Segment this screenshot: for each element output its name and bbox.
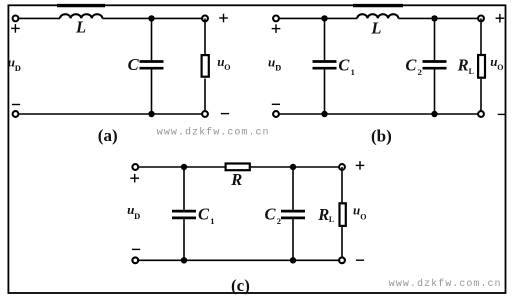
terminal output + (b) — [478, 16, 484, 22]
wire bottom (c) — [139, 259, 339, 261]
terminal output - (c) — [339, 257, 345, 263]
wire RL top lead (b) — [480, 18, 482, 54]
terminal output - (a) — [202, 111, 208, 117]
svg-text:D: D — [15, 63, 21, 73]
svg-text:www.dzkfw.com.cn: www.dzkfw.com.cn — [157, 126, 270, 138]
plus sign input (c) — [130, 174, 139, 183]
svg-text:C: C — [405, 56, 417, 75]
plus sign output (c) — [356, 161, 365, 170]
terminal input - (b) — [273, 111, 279, 117]
svg-text:L: L — [329, 215, 334, 224]
minus sign output (c) — [356, 259, 364, 261]
junction node C1 top (b) — [321, 15, 327, 21]
wire C2 top lead (c) — [292, 167, 294, 210]
svg-text:D: D — [275, 63, 281, 73]
svg-text:C: C — [265, 205, 277, 224]
minus sign output (b) — [498, 113, 506, 115]
plus sign input (a) — [11, 24, 20, 33]
junction node top (a) — [148, 15, 154, 21]
minus sign input (b) — [272, 103, 280, 105]
svg-text:(b): (b) — [371, 127, 392, 146]
svg-text:O: O — [360, 213, 366, 222]
svg-text:C: C — [128, 55, 140, 74]
wire C1 bottom lead (c) — [183, 219, 185, 260]
inductor L coil (a) — [60, 14, 102, 18]
svg-text:C: C — [198, 205, 210, 224]
terminal input + (c) — [132, 164, 138, 170]
svg-text:R: R — [317, 205, 329, 224]
svg-text:www.dzkfw.com.cn: www.dzkfw.com.cn — [389, 278, 502, 290]
svg-text:2: 2 — [277, 216, 281, 226]
svg-text:(c): (c) — [231, 276, 250, 295]
wire bottom (b) — [279, 113, 478, 115]
terminal input + (b) — [273, 16, 279, 22]
junction node C1 bottom (c) — [181, 257, 187, 263]
inductor core bar (a) — [57, 4, 105, 7]
plus sign output (a) — [219, 14, 228, 23]
capacitor C1 (b) — [313, 62, 337, 69]
wire load top lead (a) — [204, 18, 206, 54]
svg-text:R: R — [457, 55, 469, 74]
wire bottom (a) — [19, 113, 202, 115]
minus sign output (a) — [221, 113, 229, 115]
svg-text:u: u — [353, 203, 360, 218]
wire top-left (b) — [279, 17, 357, 19]
wire C2 bottom lead (b) — [434, 69, 436, 114]
svg-text:1: 1 — [210, 216, 214, 226]
svg-text:1: 1 — [351, 67, 355, 77]
resistor R box (c) — [226, 164, 250, 171]
inductor core bar (b) — [353, 4, 403, 7]
wire top-right (a) — [102, 17, 202, 19]
wire top-left (c) — [139, 166, 225, 168]
terminal output + (c) — [339, 164, 345, 170]
wire RL top lead (c) — [341, 167, 343, 202]
junction node C2 top (c) — [290, 164, 296, 170]
svg-text:O: O — [224, 63, 230, 72]
svg-text:L: L — [370, 18, 381, 37]
wire top-left (a) — [19, 17, 60, 19]
terminal input + (a) — [13, 16, 19, 22]
junction node C2 bottom (c) — [290, 257, 296, 263]
wire load bottom lead (a) — [204, 79, 206, 115]
terminal input - (a) — [13, 111, 19, 117]
wire C1 top lead (b) — [324, 18, 326, 60]
svg-text:O: O — [497, 63, 503, 72]
wire RL bottom lead (b) — [480, 79, 482, 114]
terminal output - (b) — [478, 111, 484, 117]
plus sign output (b) — [496, 14, 505, 23]
capacitor C2 (b) — [423, 62, 447, 69]
minus sign input (a) — [12, 104, 20, 106]
capacitor C2 (c) — [281, 211, 305, 218]
wire C2 bottom lead (c) — [292, 219, 294, 260]
wire top-right (b) — [398, 17, 478, 19]
wire top-right (c) — [251, 166, 339, 168]
junction node bottom (a) — [148, 111, 154, 117]
capacitor C1 (c) — [172, 211, 196, 218]
svg-text:C: C — [338, 56, 350, 75]
svg-text:L: L — [75, 17, 86, 36]
wire C1 top lead (c) — [183, 167, 185, 210]
wire capacitor bottom lead (a) — [151, 69, 153, 114]
svg-text:(a): (a) — [98, 126, 118, 145]
wire capacitor top lead (a) — [151, 18, 153, 60]
wire C1 bottom lead (b) — [324, 69, 326, 114]
junction node C2 bottom (b) — [431, 111, 437, 117]
junction node C1 bottom (b) — [321, 111, 327, 117]
resistor RL box (c) — [340, 203, 346, 226]
junction node C2 top (b) — [431, 15, 437, 21]
terminal output + (a) — [202, 16, 208, 22]
svg-text:R: R — [230, 170, 242, 189]
resistor load box (a) — [202, 55, 209, 77]
junction node C1 top (c) — [181, 164, 187, 170]
wire C2 top lead (b) — [434, 18, 436, 60]
wire RL bottom lead (c) — [341, 227, 343, 260]
plus sign input (b) — [272, 24, 281, 33]
svg-text:2: 2 — [418, 67, 422, 77]
svg-text:D: D — [134, 211, 140, 221]
terminal input - (c) — [132, 257, 138, 263]
resistor RL box (b) — [478, 55, 485, 78]
svg-text:L: L — [469, 67, 474, 76]
inductor L coil (b) — [357, 14, 398, 18]
minus sign input (c) — [132, 248, 140, 250]
capacitor C (a) — [140, 62, 164, 69]
